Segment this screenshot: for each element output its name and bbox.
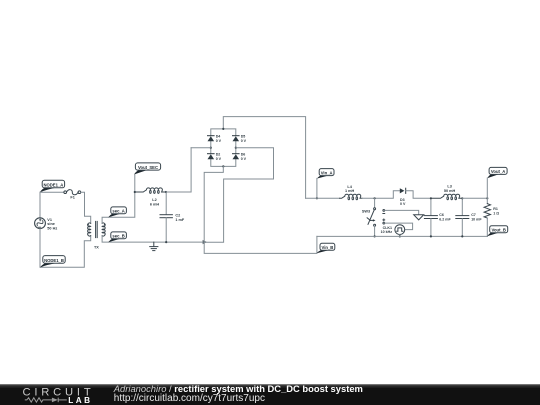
svg-text:Vout_B: Vout_B (492, 227, 506, 232)
junction dot (165, 191, 167, 193)
svg-text:50 mH: 50 mH (444, 189, 456, 193)
ground (150, 242, 158, 251)
capacitor C6 (424, 198, 437, 236)
svg-text:0 V: 0 V (241, 139, 247, 143)
svg-text:1 mF: 1 mF (175, 218, 185, 222)
wire (191, 147, 211, 149)
footer bar (0, 384, 540, 405)
diode D6 (233, 154, 240, 160)
svg-text:Vout_SEC: Vout_SEC (138, 165, 158, 170)
junction dot (461, 235, 463, 237)
node sec_A (108, 207, 126, 218)
switch control terminals (383, 210, 385, 225)
junction dot (374, 235, 376, 237)
node sec_B (108, 232, 126, 242)
svg-text:6 mH: 6 mH (150, 203, 160, 207)
svg-text:C6: C6 (439, 213, 444, 217)
inductor L3 (431, 194, 462, 200)
svg-text:1 Ω: 1 Ω (493, 212, 499, 216)
wire (205, 148, 274, 243)
svg-text:L3: L3 (447, 184, 451, 188)
node NODE1_A (40, 180, 65, 192)
resistor R1 (484, 198, 490, 236)
bridge rectifier wires (211, 129, 236, 167)
wire (102, 236, 203, 242)
junction dot (235, 147, 237, 149)
svg-text:sec_B: sec_B (112, 233, 124, 238)
svg-text:R1: R1 (493, 207, 498, 211)
svg-text:TX: TX (94, 245, 99, 249)
junction dot (430, 197, 432, 199)
svg-text:NODE1_A: NODE1_A (44, 182, 64, 187)
fuse F1 (64, 190, 81, 195)
junction dot (486, 197, 488, 199)
svg-text:1 mH: 1 mH (345, 189, 355, 193)
svg-text:10 mF: 10 mF (471, 218, 482, 222)
junction dot (461, 197, 463, 199)
junction dot (134, 191, 136, 193)
svg-text:NODE1_B: NODE1_B (44, 258, 64, 263)
svg-text:0 V: 0 V (216, 139, 222, 143)
voltage source V1 (35, 218, 46, 229)
diode D5 (233, 136, 240, 142)
svg-text:sec_A: sec_A (112, 208, 124, 213)
junction dot (165, 241, 167, 243)
capacitor C2 (160, 192, 172, 242)
arrow terminal (414, 215, 424, 220)
wire (40, 191, 64, 193)
svg-text:L2: L2 (152, 198, 156, 202)
svg-text:0 V: 0 V (400, 202, 406, 206)
inductor L1 (135, 188, 166, 194)
svg-text:F1: F1 (70, 196, 74, 200)
svg-text:0 V: 0 V (216, 157, 222, 161)
bottom rail wire (317, 235, 487, 237)
svg-text:0 V: 0 V (241, 157, 247, 161)
diode D2 (208, 154, 215, 160)
wire (40, 229, 91, 268)
svg-text:10 kHz: 10 kHz (381, 230, 393, 234)
junction dot (399, 235, 401, 237)
capacitor C7 (456, 198, 469, 236)
node NODE1_B (40, 256, 65, 268)
svg-text:C7: C7 (471, 213, 476, 217)
svg-text:Vin_A: Vin_A (321, 170, 333, 175)
junction arrow (203, 240, 207, 244)
wire (486, 178, 488, 198)
svg-text:http://circuitlab.com/cy7t7urt: http://circuitlab.com/cy7t7urts7upc (114, 393, 265, 404)
wire (306, 197, 340, 199)
switch SW3 (367, 198, 376, 236)
junction dot (316, 197, 318, 199)
wire (362, 191, 400, 199)
wire (81, 192, 91, 223)
node Vout_SEC (134, 163, 161, 175)
wire (204, 166, 317, 253)
svg-text:SW3: SW3 (362, 210, 370, 214)
svg-text:6.2 mF: 6.2 mF (439, 218, 451, 222)
wire (462, 197, 487, 199)
node Vin_A (317, 169, 334, 179)
wire (316, 178, 318, 198)
junction dot (210, 147, 212, 149)
clock source CLK1 (395, 225, 405, 237)
wire (223, 117, 305, 199)
wire (385, 223, 413, 230)
wire (134, 175, 136, 193)
svg-text:50 Hz: 50 Hz (47, 227, 57, 231)
node Vout_A (487, 167, 507, 178)
logo doodle (25, 398, 67, 403)
wire (39, 192, 41, 218)
wire (166, 148, 191, 192)
transformer TX (88, 221, 105, 237)
wire (102, 192, 135, 223)
diode D4 (208, 136, 215, 142)
svg-text:LAB: LAB (68, 396, 92, 405)
junction dot (374, 197, 376, 199)
wire (385, 210, 419, 214)
junction dot (430, 235, 432, 237)
svg-text:Vout_A: Vout_A (491, 169, 505, 174)
diode D3 (400, 188, 406, 193)
svg-text:C2: C2 (175, 213, 180, 217)
junction dot (222, 165, 224, 167)
node Vin_B (317, 243, 335, 253)
inductor L4 (340, 194, 362, 200)
node Vout_B (487, 226, 508, 237)
wire (406, 191, 431, 199)
svg-text:Vin_B: Vin_B (322, 245, 334, 250)
junction dot (222, 128, 224, 130)
